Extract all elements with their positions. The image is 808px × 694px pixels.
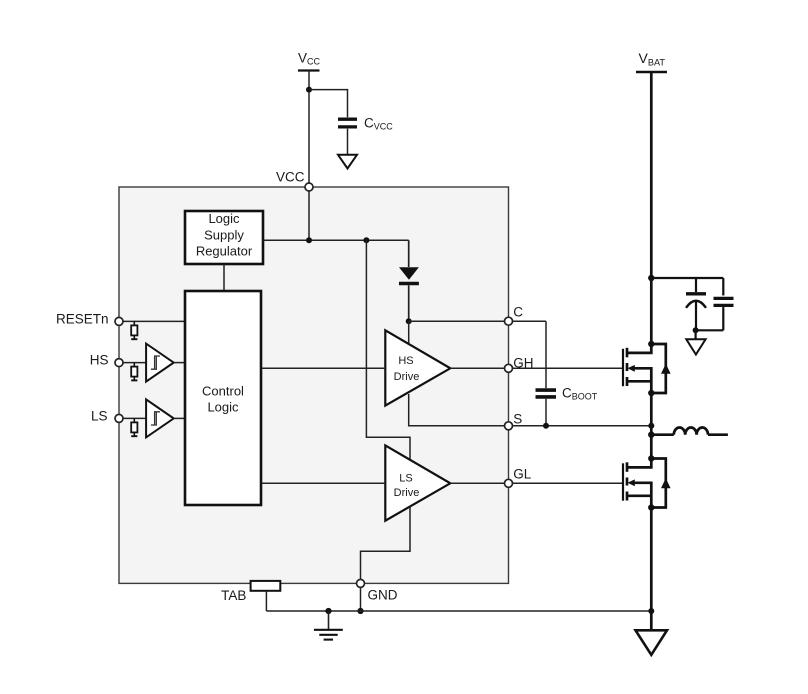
svg-text:Control: Control (202, 383, 244, 398)
svg-text:Drive: Drive (394, 371, 420, 383)
schmitt buffer (LS input) (146, 399, 174, 437)
ground (power stage) (636, 630, 668, 655)
pin RESETn (115, 317, 123, 325)
wire pin C to CBOOT (512, 320, 546, 322)
svg-text:HS: HS (90, 353, 109, 368)
node CBOOT S junction (543, 423, 549, 429)
resistor RESETn pull-down (131, 321, 137, 339)
wire C node to HS Drive supply (408, 321, 410, 343)
node LSR output / VCC junction (306, 237, 312, 243)
wire GND pin to ground rail (360, 587, 362, 611)
wire LSR to Control Logic (223, 264, 225, 291)
resistor HS pull-down (131, 363, 137, 381)
node phase inductor junction (648, 432, 654, 438)
svg-text:VCC: VCC (276, 169, 305, 184)
wire HS Drive output to pin GH (450, 367, 504, 369)
wire LS Drive output to pin GL (450, 482, 504, 484)
transistor Q2 (low-side NFET) (623, 455, 671, 510)
capacitor CVCC (338, 116, 393, 132)
ground (input caps) (686, 339, 705, 354)
node input-cap ground junction (693, 327, 699, 333)
svg-text:Drive: Drive (394, 487, 420, 499)
node GND rail junction (357, 608, 363, 614)
transistor Q1 (high-side NFET) (623, 341, 671, 396)
pin LS (115, 414, 123, 422)
svg-text:S: S (513, 411, 522, 426)
ground (earth, TAB) (314, 611, 343, 640)
node C junction (406, 318, 412, 324)
svg-text:Logic: Logic (208, 211, 240, 226)
pin GH (505, 364, 513, 372)
pin HS (115, 359, 123, 367)
pin TAB (pad) (251, 581, 281, 591)
svg-text:TAB: TAB (221, 588, 246, 603)
inductor L (output) (651, 428, 728, 435)
capacitor bypass ceramic (input) (714, 278, 734, 330)
wire junction to ground symbol (694, 330, 696, 339)
pin S (505, 422, 513, 430)
node LSR output / LS supply junction (363, 237, 369, 243)
wire C node to pin C (409, 320, 505, 322)
wire RESETn to Control Logic (123, 320, 185, 322)
svg-text:Regulator: Regulator (196, 243, 253, 258)
wire LSR output to diode (408, 240, 410, 267)
svg-text:C: C (513, 305, 523, 320)
block Logic Supply Regulator (185, 211, 263, 264)
wire LS Drive return to GND pin (361, 507, 411, 580)
wire VCC supply to VCC pin (308, 71, 310, 184)
node VCC top junction (306, 87, 312, 93)
svg-text:HS: HS (398, 355, 413, 367)
wire schmitt to Control Logic (174, 417, 185, 419)
ground (CVCC) (338, 155, 357, 169)
svg-text:GND: GND (368, 588, 398, 603)
node VBAT caps junction (648, 275, 654, 281)
wire pin GL to Q2 gate (512, 482, 622, 484)
wire LSR output internal rail (263, 239, 409, 241)
IC block outline (119, 187, 509, 583)
wire junction to CVCC (309, 90, 348, 118)
wire schmitt to Control Logic (174, 362, 185, 364)
wire Q2 source to power ground (650, 508, 653, 630)
wire Control Logic to HS Drive input (261, 367, 385, 369)
wire HS Drive return to S (409, 394, 505, 426)
wire CVCC to ground (347, 129, 349, 154)
pin C (505, 317, 513, 325)
net VBAT supply symbol (636, 50, 667, 72)
wire pin GH to Q1 gate (512, 367, 622, 369)
wire HS to schmitt input (123, 362, 146, 364)
svg-text:LS: LS (399, 472, 412, 484)
buffer LS Drive (385, 445, 450, 520)
capacitor bulk electrolytic (input) (686, 278, 706, 330)
schmitt buffer (HS input) (146, 344, 174, 382)
wire Q1 source to phase node (650, 393, 653, 459)
wire pin S to phase node (512, 425, 651, 427)
svg-text:Logic: Logic (207, 399, 239, 414)
block Control Logic (185, 291, 261, 505)
capacitor CBOOT (536, 321, 598, 426)
buffer HS Drive (385, 330, 450, 405)
wire TAB to ground rail (265, 591, 267, 611)
svg-text:GL: GL (513, 467, 532, 482)
svg-text:LS: LS (91, 409, 108, 424)
wire Control Logic to LS Drive input (261, 482, 385, 484)
wire caps bottom to ground (696, 329, 724, 331)
wire diode to C node (408, 285, 410, 321)
node phase S junction (648, 423, 654, 429)
pin GL (505, 479, 513, 487)
wire VBAT junction to input caps (651, 277, 723, 279)
pin GND (357, 579, 365, 587)
wire ground rail (266, 610, 651, 612)
node power ground rail junction (648, 608, 654, 614)
net VCC supply symbol (298, 51, 321, 71)
wire supply to LS Drive (366, 240, 410, 460)
svg-text:RESETn: RESETn (56, 311, 109, 326)
wire VCC pin to internal rail (308, 191, 310, 240)
svg-text:Supply: Supply (204, 227, 244, 242)
wire LS to schmitt input (123, 417, 146, 419)
pin VCC (305, 183, 313, 191)
wire VBAT rail (650, 72, 653, 344)
diode D1 (bootstrap) (399, 267, 419, 283)
node earth ground junction (325, 608, 331, 614)
resistor LS pull-down (131, 418, 137, 436)
